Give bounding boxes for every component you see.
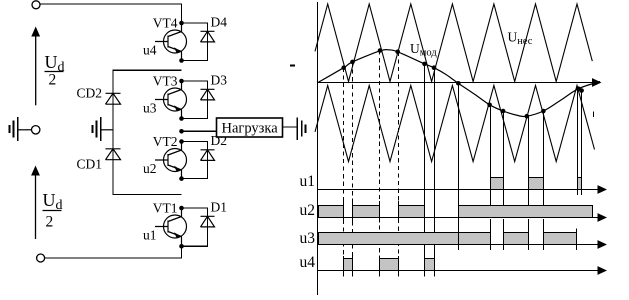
stray dot — [290, 65, 295, 67]
pulse bar on u1 — [578, 178, 582, 190]
pulse bar on u4 — [344, 259, 353, 271]
ground: load return ground symbol — [297, 118, 305, 141]
svg-text:2: 2 — [49, 72, 57, 89]
axis: u2 time axis — [318, 213, 608, 222]
wire: dashed sampling line at x=398.5 — [398, 52, 400, 271]
wire: load to right ground — [283, 126, 298, 128]
pulse bar on u2 — [319, 206, 344, 218]
transistor Q4 VT4 — [155, 23, 187, 61]
wire: solid sampling line at x=490.5 (split around u2 bar) — [490, 105, 492, 250]
wire: dashed sampling line at x=379.5 — [379, 51, 381, 272]
ground: left neutral terminal ground symbol — [10, 117, 32, 141]
axis: u3 time axis — [318, 240, 608, 249]
svg-text:u4: u4 — [300, 254, 316, 271]
wire: u4 bar edge ticks — [344, 256, 435, 277]
wire: solid sampling line at x=424.5 — [424, 64, 426, 271]
arrow: bottom Ud/2 voltage arrow — [31, 166, 40, 240]
transistor Q1 VT1 — [155, 208, 187, 246]
node: collector junction of VT3 — [179, 79, 184, 84]
svg-text:VT2: VT2 — [153, 134, 178, 149]
pulse bar on u2 — [399, 206, 425, 218]
node: collector junction of VT1 — [179, 206, 184, 211]
wire: solid sampling line at x=458.5 — [458, 85, 460, 246]
svg-text:u3: u3 — [143, 101, 157, 116]
ground: neutral mid-point ground symbol — [93, 117, 114, 141]
wire: output node to load — [182, 130, 217, 132]
svg-text:D4: D4 — [211, 15, 228, 30]
svg-text:CD1: CD1 — [77, 157, 103, 172]
svg-text:u1: u1 — [300, 173, 316, 190]
pulse bar on u3 — [544, 233, 577, 245]
pulse bar on u3 — [504, 233, 529, 245]
node: collector junction of VT2 — [179, 139, 184, 144]
terminal: DC- input (bottom left circle) — [37, 254, 45, 262]
svg-text:u1: u1 — [143, 228, 157, 243]
svg-text:VT1: VT1 — [153, 201, 178, 216]
waveform: sinusoidal modulating wave Uмод — [318, 50, 600, 117]
pulse bar on u1 — [529, 178, 544, 190]
svg-text:u3: u3 — [300, 230, 316, 247]
node: emitter junction of VT2 — [179, 176, 184, 181]
diode D3 (antiparallel) — [182, 81, 215, 119]
node: sampling intersection dots on modulating wave — [341, 48, 583, 118]
svg-text:u2: u2 — [143, 161, 157, 176]
wire: dashed sampling line at x=352.5 — [352, 62, 354, 271]
node: collector junction of VT4 — [179, 21, 184, 26]
svg-text:Нагрузка: Нагрузка — [222, 121, 279, 137]
waveform: lower triangular carrier — [315, 86, 595, 162]
axis: vertical axis of PWM chart — [317, 2, 319, 295]
svg-text:u4: u4 — [143, 43, 157, 58]
pulse bar on u4 — [425, 259, 435, 271]
axis: u4 time axis — [318, 266, 608, 275]
wire: u3 bar right edge tick — [576, 229, 578, 251]
pulse bar on u3 — [319, 233, 491, 245]
transistor Q3 VT3 — [155, 81, 187, 119]
wire: top DC+ rail to VT4 collector — [40, 4, 181, 23]
arrow: top Ud/2 voltage arrow — [31, 27, 40, 106]
wire: solid sampling line at x=434.5 — [434, 68, 436, 271]
axis: time axis of carrier/modulation plot — [318, 78, 602, 87]
diode CD2 (clamp) — [106, 93, 121, 104]
terminal: neutral point circle — [32, 126, 40, 134]
transistor Q2 VT2 — [155, 142, 187, 179]
wire: solid sampling line at x=581.5 — [581, 91, 583, 196]
svg-text:VT4: VT4 — [153, 16, 178, 31]
node: emitter junction of VT1 — [179, 244, 184, 249]
diode D2 (antiparallel) — [182, 142, 215, 179]
svg-text:CD2: CD2 — [77, 86, 103, 101]
svg-text:2: 2 — [46, 214, 54, 231]
wire: solid sampling line at x=543.5 (split around u2 bar) — [543, 111, 545, 250]
wire: solid sampling line at x=577.5 — [577, 89, 579, 195]
terminal: DC+ input (top left circle) — [32, 1, 40, 9]
svg-text:D3: D3 — [211, 73, 228, 88]
node: phase output junction — [179, 129, 184, 134]
node: emitter junction of VT3 — [179, 116, 184, 121]
label: Ud/2 (bottom) — [43, 190, 63, 231]
wire: small stray tick near carrier end — [592, 112, 594, 118]
svg-text:Uмод: Uмод — [410, 41, 437, 59]
wire: clamp branch vertical with taps to main leg — [113, 70, 182, 194]
pulse bar on u2 — [353, 206, 380, 218]
label: Ud/2 (top) — [45, 52, 65, 89]
node: emitter junction of VT4 — [179, 58, 184, 63]
svg-text:u2: u2 — [300, 202, 316, 219]
diode D1 (antiparallel) — [182, 208, 215, 246]
pulse bar on u4 — [380, 259, 399, 271]
wire: solid sampling line at x=503.5 (split around u2 bar) — [503, 111, 505, 250]
wire: bottom DC- rail to VT1 emitter — [45, 246, 182, 258]
waveform: upper triangular carrier — [315, 4, 592, 82]
diode CD1 (clamp) — [106, 149, 121, 160]
axis: u1 time axis — [318, 185, 608, 194]
svg-text:Uнес: Uнес — [508, 30, 533, 48]
wire: polarity-change divider crossing u3 bar — [458, 229, 460, 250]
wire: solid sampling line at x=528.5 (split around u2 bar) — [528, 116, 530, 250]
svg-text:Ud: Ud — [43, 190, 63, 213]
pulse bar on u2 — [459, 206, 593, 218]
pulse bar on u1 — [491, 178, 504, 190]
load box: Нагрузка — [217, 118, 283, 137]
diode D4 (antiparallel) — [182, 23, 215, 61]
svg-text:VT3: VT3 — [153, 74, 178, 89]
svg-text:D1: D1 — [211, 200, 228, 215]
wire: dashed sampling line at x=343.5 — [343, 68, 345, 271]
wire: u2 bar edge ticks — [344, 201, 425, 223]
